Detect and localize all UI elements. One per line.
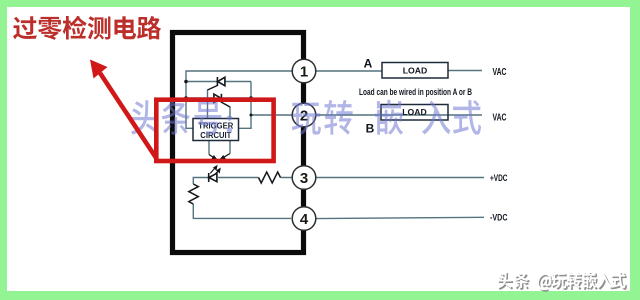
LED D1 input (cathode left) <box>209 173 217 182</box>
wire: LOAD A to VAC <box>448 70 482 72</box>
watermark: 头条号：玩转嵌入式 <box>131 100 481 135</box>
annotation: red arrow <box>90 60 157 159</box>
terminal 3 <box>292 166 316 190</box>
terminal 4 <box>292 207 316 231</box>
wire: input left vertical and bottom row to terminal 4 <box>193 204 291 218</box>
wire: SCR1 row <box>186 81 251 83</box>
svg-text:1: 1 <box>300 63 308 80</box>
phototransistor of optocoupler U2 <box>209 154 230 160</box>
optocoupler light arrows <box>210 166 220 176</box>
wire: phototransistor collector stub <box>208 141 210 155</box>
wire: phototransistor emitter stub <box>229 141 231 154</box>
svg-text:+VDC: +VDC <box>490 172 508 183</box>
svg-text:-VDC: -VDC <box>490 212 508 223</box>
svg-text:VAC: VAC <box>493 67 507 78</box>
svg-text:LOAD: LOAD <box>402 107 427 117</box>
title: 过零检测电路 <box>13 16 161 40</box>
resistor R2 input (vertical zigzag) <box>189 184 199 204</box>
wire: right node to terminal 2 <box>251 114 292 116</box>
SSR case outline <box>173 33 304 253</box>
LOAD box A <box>382 63 448 79</box>
wire: terminal-1 net top, left vertical, into trigger box left <box>186 71 292 128</box>
resistor R1 series input (horizontal zigzag) <box>259 172 281 183</box>
svg-text:A: A <box>364 56 373 70</box>
annotation: red highlight rectangle <box>156 100 273 161</box>
wire: terminal 3 to +VDC <box>316 177 484 179</box>
wire: terminal 1 to LOAD A <box>316 70 382 72</box>
SCR Q1 (top thyristor, cathode left) with gate lead <box>208 77 225 90</box>
wire: SCR1 gate vertical <box>207 90 209 119</box>
wire: SCR2 row <box>186 97 251 99</box>
watermark: 头条 @玩转嵌入式 (bottom right, embossed) <box>499 273 627 292</box>
svg-text:3: 3 <box>300 170 308 187</box>
svg-text:VAC: VAC <box>493 112 507 123</box>
SCR Q2 (bottom thyristor, cathode right) with gate lead <box>214 94 230 107</box>
wire: terminal 2 through LOAD B to VAC <box>316 114 482 116</box>
trigger circuit box U1 <box>193 119 239 141</box>
junction node dots <box>184 80 253 117</box>
wire: SCR2 gate vertical <box>229 107 231 119</box>
terminal 2 <box>292 103 316 127</box>
terminal 1 <box>292 59 316 83</box>
wire: terminal 4 to -VDC <box>316 217 484 218</box>
LOAD box B <box>381 105 448 121</box>
wire: terminal-3 input row through R1 and LED <box>193 178 292 185</box>
svg-text:LOAD: LOAD <box>403 65 428 75</box>
wire: right node vertical down to trigger box right <box>239 82 252 129</box>
svg-text:Load can be wired in position: Load can be wired in position A or B <box>359 87 472 97</box>
svg-text:4: 4 <box>300 211 309 228</box>
svg-text:B: B <box>366 121 375 135</box>
